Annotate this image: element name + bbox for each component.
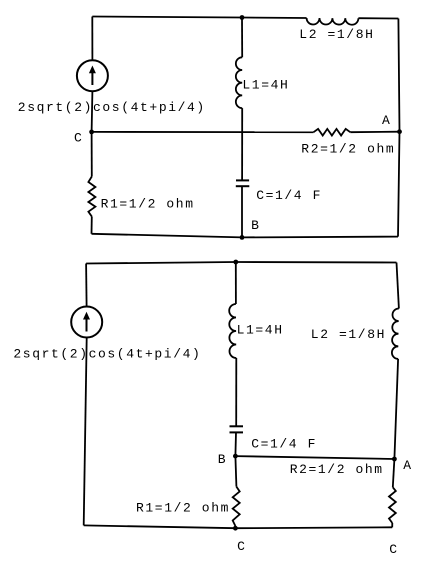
svg-text:C=1/4 F: C=1/4 F	[251, 437, 317, 452]
wire capacitor to node B (top circuit)	[241, 186, 243, 237]
wire node A to resistor R2 (bottom circuit)	[393, 459, 395, 487]
wire left branch circle to bottom corner (bottom circuit)	[84, 338, 87, 526]
wire capacitor to node B (bottom circuit)	[234, 432, 237, 456]
wire L2 to node A (bottom circuit)	[394, 359, 398, 459]
svg-text:L2 =1/8H: L2 =1/8H	[299, 27, 374, 42]
resistor R1 (top circuit)	[88, 177, 95, 217]
svg-text:A: A	[403, 458, 412, 473]
svg-text:A: A	[382, 113, 391, 128]
inductor L2 (bottom circuit)	[392, 308, 399, 358]
wire left branch circle to node C (top circuit)	[91, 91, 94, 132]
wire node C to resistor R1 (top circuit)	[91, 132, 93, 177]
node A dot (top circuit)	[397, 129, 402, 134]
node B dot (bottom circuit)	[233, 454, 238, 459]
wire left branch upper (top circuit)	[91, 17, 93, 61]
svg-text:R1=1/2 ohm: R1=1/2 ohm	[136, 501, 230, 516]
svg-text:C: C	[237, 539, 246, 554]
svg-text:B: B	[218, 452, 227, 467]
current source I2 (bottom circuit)	[71, 307, 102, 338]
current source arrow (bottom circuit)	[86, 318, 88, 332]
wire bottom (bottom circuit)	[84, 525, 393, 528]
wire node B to resistor R1 (bottom circuit)	[235, 456, 236, 487]
wire L1 to capacitor (bottom circuit)	[235, 358, 237, 426]
node junction dot top (bottom circuit)	[233, 260, 238, 265]
svg-text:2sqrt(2)cos(4t+pi/4): 2sqrt(2)cos(4t+pi/4)	[18, 100, 206, 115]
wire top-left horizontal (top circuit)	[92, 17, 306, 19]
node A dot (bottom circuit)	[392, 457, 397, 462]
resistor R2 (top circuit)	[314, 129, 351, 136]
wire bottom (top circuit)	[92, 234, 399, 238]
wire node B to node A (bottom circuit)	[235, 456, 394, 459]
wire top (bottom circuit)	[86, 262, 396, 264]
svg-text:B: B	[251, 218, 260, 233]
svg-text:C=1/4 F: C=1/4 F	[256, 188, 322, 203]
current source arrow (top circuit)	[91, 71, 93, 85]
inductor L2 (top circuit)	[307, 18, 359, 25]
node B dot (top circuit)	[240, 235, 245, 240]
wire right branch upper to L2 (bottom circuit)	[397, 263, 399, 309]
wire top-right segment after L2 (top circuit)	[358, 17, 398, 19]
svg-text:L1=4H: L1=4H	[242, 77, 289, 92]
current source arrowhead (top circuit)	[89, 66, 96, 74]
node C dot (top circuit)	[89, 130, 94, 135]
svg-text:R2=1/2 ohm: R2=1/2 ohm	[301, 141, 395, 156]
svg-text:C: C	[74, 131, 83, 146]
svg-text:C: C	[389, 542, 398, 557]
wire middle branch top to L1 (top circuit)	[241, 18, 243, 58]
capacitor C plate 1 (top circuit)	[236, 179, 249, 181]
node dot bottom (bottom circuit)	[233, 526, 238, 531]
wire resistor R1 to bottom node dot (bottom circuit)	[234, 526, 236, 528]
wire L1 to capacitor (top circuit)	[241, 108, 243, 180]
inductor L1 (top circuit)	[236, 57, 242, 108]
wire left branch upper (bottom circuit)	[85, 264, 88, 307]
wire resistor R2 to node A (top circuit)	[350, 131, 399, 134]
capacitor C plate 2 (top circuit)	[236, 185, 250, 187]
svg-text:R1=1/2 ohm: R1=1/2 ohm	[101, 196, 195, 211]
svg-text:L2 =1/8H: L2 =1/8H	[311, 327, 386, 342]
wire node C to resistor R2 (top circuit)	[92, 131, 314, 133]
current source arrowhead (bottom circuit)	[83, 312, 90, 320]
capacitor C plate 2 (bottom circuit)	[230, 431, 244, 433]
resistor R1 (bottom circuit)	[233, 487, 240, 526]
svg-text:2sqrt(2)cos(4t+pi/4): 2sqrt(2)cos(4t+pi/4)	[13, 347, 201, 362]
wire resistor R1 to bottom corner (top circuit)	[91, 217, 93, 234]
resistor R2 (bottom circuit)	[389, 487, 396, 523]
current source I1 (top circuit)	[77, 60, 108, 91]
capacitor C plate 1 (bottom circuit)	[230, 425, 244, 427]
wire resistor R2 to bottom corner (bottom circuit)	[391, 523, 393, 527]
svg-text:L1=4H: L1=4H	[237, 322, 284, 337]
node junction dot top (top circuit)	[240, 15, 245, 20]
wire right branch (top circuit)	[398, 19, 400, 237]
inductor L1 (bottom circuit)	[229, 304, 236, 358]
wire middle branch top to L1 (bottom circuit)	[235, 262, 237, 304]
svg-text:R2=1/2 ohm: R2=1/2 ohm	[290, 462, 384, 477]
